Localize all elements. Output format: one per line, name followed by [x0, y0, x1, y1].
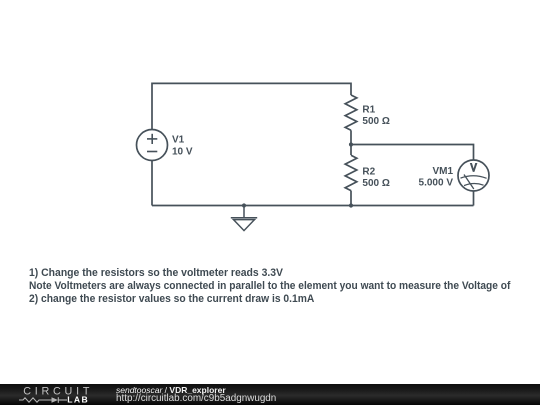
wire R2 to bottom: [350, 191, 352, 206]
svg-text:500 Ω: 500 Ω: [362, 116, 389, 127]
ground node junction dot: [242, 203, 246, 207]
svg-text:Note Voltmeters are always con: Note Voltmeters are always connected in …: [29, 280, 511, 292]
bottom node junction dot: [349, 203, 353, 207]
wire node A to R2: [350, 145, 352, 156]
voltmeter scale arcs and needle: [461, 175, 487, 190]
ground: [231, 206, 257, 231]
wire R1 to node A: [350, 130, 352, 144]
svg-text:5.000 V: 5.000 V: [419, 178, 454, 189]
svg-text:2) change the resistor values: 2) change the resistor values so the cur…: [29, 293, 314, 305]
resistor R1: [345, 95, 357, 130]
svg-text:V1: V1: [172, 135, 185, 146]
V1 plus and minus marks: [147, 134, 157, 152]
voltage source V1: [137, 130, 168, 161]
wire node A to voltmeter: [351, 145, 474, 161]
wire V1 top to R1 top: [152, 83, 351, 129]
footer bar: [0, 384, 540, 405]
svg-text:VM1: VM1: [432, 166, 453, 177]
logo resistor-diode: [19, 397, 67, 403]
wire voltmeter bottom: [473, 191, 475, 206]
footer url line: [116, 393, 276, 404]
svg-text:500 Ω: 500 Ω: [362, 178, 389, 189]
svg-text:10 V: 10 V: [172, 147, 193, 158]
footer author line: [116, 385, 226, 395]
node A junction dot: [349, 142, 353, 146]
resistor R2: [345, 155, 357, 190]
wire V1 bottom to bottom rail: [151, 161, 153, 206]
svg-text:R2: R2: [362, 166, 375, 177]
svg-text:R1: R1: [362, 104, 375, 115]
CircuitLab logo: [0, 384, 110, 405]
voltmeter V symbol: [470, 163, 478, 172]
wire bottom: [152, 205, 474, 207]
voltmeter VM1: [458, 160, 489, 191]
svg-text:LAB: LAB: [67, 395, 89, 405]
svg-text:1) Change the resistors so the: 1) Change the resistors so the voltmeter…: [29, 267, 284, 279]
